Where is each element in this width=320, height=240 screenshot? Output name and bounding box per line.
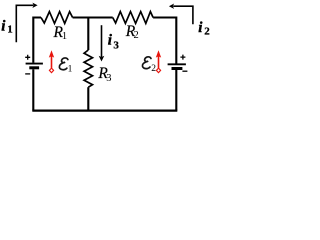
wire: middle branch upper <box>87 18 89 51</box>
resistor R3 <box>84 50 92 87</box>
svg-text:1: 1 <box>68 65 73 75</box>
current arrow i2 <box>169 4 193 25</box>
label E1 (script E) <box>59 58 68 70</box>
battery E1 polarity + <box>25 55 30 60</box>
current arrow i1 <box>16 3 37 43</box>
svg-text:2: 2 <box>204 26 210 38</box>
label i1 <box>1 18 13 35</box>
svg-text:1: 1 <box>62 31 67 42</box>
resistor R1 <box>41 12 73 24</box>
svg-text:1: 1 <box>7 23 13 35</box>
wire: top-left corner + left vertical upper <box>33 18 41 63</box>
battery E2 polarity - <box>182 70 187 72</box>
battery E1 plates <box>26 64 43 68</box>
battery E1 polarity - <box>25 73 30 75</box>
emf arrow E2 <box>156 50 161 72</box>
wire: top-right corner + right vertical upper <box>153 18 176 64</box>
wire: left vertical lower <box>32 69 34 110</box>
current arrow i3 <box>99 25 105 61</box>
label i3 <box>108 32 120 51</box>
svg-text:2: 2 <box>151 64 156 74</box>
svg-text:3: 3 <box>113 40 119 52</box>
wire: bottom <box>32 109 177 111</box>
wire: middle branch lower <box>87 87 89 110</box>
wire: right vertical lower <box>175 70 177 111</box>
svg-text:2: 2 <box>134 30 139 41</box>
emf arrow E1 <box>49 50 54 72</box>
label R3 <box>97 65 111 84</box>
svg-text:3: 3 <box>106 73 111 84</box>
label R2 <box>125 23 139 41</box>
label R1 <box>53 24 68 42</box>
wire: top middle segment <box>73 16 113 18</box>
resistor R2 <box>113 12 153 24</box>
battery E2 polarity + <box>180 55 185 60</box>
label i2 <box>198 20 210 38</box>
label E2 (script E) <box>142 57 151 69</box>
battery E2 plates <box>168 64 186 68</box>
